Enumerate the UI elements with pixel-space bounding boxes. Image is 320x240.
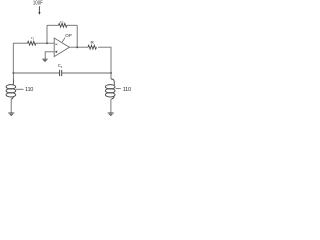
svg-text:110: 110 — [123, 87, 131, 93]
svg-text:r1: r1 — [31, 35, 34, 41]
node: bottom-left junction dot — [12, 72, 14, 74]
wire: bottom horizontal left of capacitor — [13, 72, 59, 74]
svg-text:100F: 100F — [33, 0, 43, 7]
wire: feedback right vertical down to output — [76, 25, 78, 47]
wire: left branch down to inductor — [12, 73, 14, 79]
resistor r1 — [28, 41, 37, 45]
wire: feedback top horizontal right segment — [67, 24, 77, 26]
resistor r2 — [59, 23, 68, 27]
wire: input horizontal right segment to op-amp — [36, 42, 54, 44]
svg-text:110: 110 — [25, 87, 33, 93]
ground (right, chassis style) — [108, 113, 114, 115]
wire: bottom horizontal right of capacitor — [62, 72, 111, 74]
svg-text:r2: r2 — [60, 19, 63, 25]
capacitor C1 — [60, 70, 62, 76]
ground (left, chassis style) — [8, 113, 14, 115]
wire: input horizontal left segment — [13, 42, 27, 44]
wire: left inductor to ground — [10, 99, 12, 113]
leader line to label 110 (right) — [116, 88, 121, 90]
node: bottom-right junction dot — [110, 72, 112, 74]
svg-text:C1: C1 — [58, 63, 63, 69]
node A junction dot (feedback tap) — [46, 42, 48, 44]
wire: left vertical down to bottom node — [12, 43, 14, 73]
op-amp plus input sign — [55, 51, 57, 53]
inductor 110 (right coil) — [105, 79, 115, 99]
arrow pointing down from 100F — [38, 6, 40, 15]
leader line to label 110 (left) — [16, 88, 24, 90]
wire: op-amp output — [69, 46, 88, 48]
wire: plus input to ground — [45, 52, 54, 59]
resistor R — [88, 45, 97, 49]
wire: feedback vertical up — [46, 25, 48, 43]
op-amp minus input sign — [55, 43, 57, 45]
inductor 110 (left coil) — [6, 79, 16, 99]
wire: right inductor to ground — [110, 99, 112, 113]
wire: output to right corner — [98, 47, 111, 73]
wire: feedback top horizontal left segment — [47, 24, 59, 26]
svg-text:OP: OP — [65, 33, 72, 38]
ground (op-amp plus input, chassis style) — [42, 59, 47, 61]
wire: right branch down to inductor — [110, 73, 112, 79]
node B junction dot (feedback/output) — [76, 46, 78, 48]
leader from OP label to op-amp body — [62, 38, 65, 43]
svg-text:R: R — [91, 40, 95, 45]
op-amp U1 triangle — [54, 38, 69, 57]
